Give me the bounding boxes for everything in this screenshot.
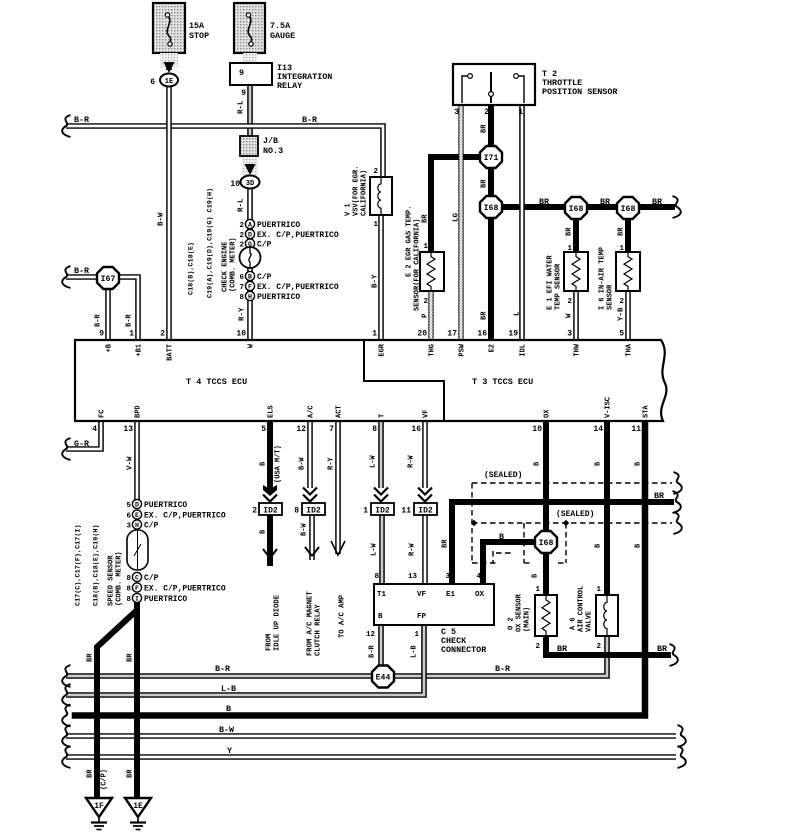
label B on STA wire lower <box>635 543 643 548</box>
arrow into ID2 on T wire <box>374 488 388 502</box>
svg-text:15A: 15A <box>189 21 205 31</box>
svg-text:B: B <box>499 532 504 542</box>
break B-W bus left <box>62 725 70 747</box>
label B on STA wire upper <box>635 461 643 466</box>
wire L-B bus from left break to check connector FP <box>66 625 424 695</box>
svg-text:BR: BR <box>652 197 663 207</box>
label BR right ground lower <box>127 769 135 778</box>
feather arrow from A/C magnet clutch relay <box>305 547 319 556</box>
svg-text:BR: BR <box>127 653 135 662</box>
label B bus <box>226 704 231 714</box>
arrow into ID2 on ELS wire <box>263 485 277 502</box>
wire B-W from ID2 to A/C magnet clutch relay arrow <box>309 514 315 560</box>
svg-text:STOP: STOP <box>189 31 209 41</box>
relay I13 box <box>230 63 272 85</box>
svg-text:L-B: L-B <box>411 645 419 658</box>
svg-text:8: 8 <box>239 294 244 302</box>
pin 4 check connector OX <box>476 573 481 581</box>
label BR right ground upper <box>127 653 135 662</box>
label B-R bus second <box>495 664 511 674</box>
label BR on sensor bus 2 <box>600 197 611 207</box>
connector 3D <box>241 176 260 189</box>
label A6 AIR CONTROL VALVE <box>570 586 594 632</box>
svg-text:SPEED SENSOR: SPEED SENSOR <box>108 555 116 606</box>
label BR below TPS <box>481 124 489 133</box>
svg-text:B: B <box>226 704 231 714</box>
svg-text:BPD: BPD <box>135 405 143 418</box>
svg-text:PUERTRICO: PUERTRICO <box>144 501 187 510</box>
wire R-W from ECU pin 16 VF to ID2 <box>422 421 428 488</box>
svg-text:C/P: C/P <box>257 241 272 250</box>
label W <box>566 313 574 318</box>
svg-text:CONNECTOR: CONNECTOR <box>441 645 487 655</box>
svg-text:SENSOR(FOR CALIFORNIA): SENSOR(FOR CALIFORNIA) <box>414 219 422 311</box>
wire L-W from ECU pin 8 T to ID2 <box>378 421 384 488</box>
svg-text:E1: E1 <box>446 591 456 599</box>
wire B (USA M/T) from ECU pin 5 ELS to ID2 <box>267 421 273 489</box>
wire from GAUGE fuse to integration relay pin <box>247 52 253 66</box>
svg-text:1: 1 <box>535 586 540 594</box>
svg-text:FP: FP <box>417 613 427 621</box>
label BR far right <box>657 644 668 654</box>
pin 9 below relay <box>241 89 246 98</box>
svg-text:J/B: J/B <box>263 136 278 146</box>
svg-text:FROM: FROM <box>266 634 274 651</box>
wire B-W from connector 1E to ECU pin 2 BATT <box>166 86 172 340</box>
wire R-W from ID2 to check connector VF <box>422 514 428 584</box>
fuse 15A STOP <box>153 3 185 53</box>
pin 1 check connector FP <box>414 631 419 639</box>
svg-text:12: 12 <box>296 425 306 434</box>
svg-text:E 2 EGR GAS TEMP.: E 2 EGR GAS TEMP. <box>406 206 414 277</box>
svg-text:R-L: R-L <box>238 100 246 114</box>
splice I68 third <box>617 197 639 219</box>
svg-text:C18(B),C18(E): C18(B),C18(E) <box>187 242 195 295</box>
svg-text:R-W: R-W <box>408 455 416 468</box>
label B-R top left <box>74 115 90 125</box>
svg-text:BR: BR <box>422 214 430 223</box>
label 7.5A GAUGE <box>270 21 295 41</box>
pin numbers speed sensor chain <box>126 502 131 604</box>
svg-text:BR: BR <box>127 769 135 778</box>
svg-text:SENSOR: SENSOR <box>607 284 615 310</box>
svg-text:BR: BR <box>618 227 626 236</box>
svg-text:B-R: B-R <box>215 664 231 674</box>
label L-B bus <box>221 684 236 694</box>
svg-text:(COMB. METER): (COMB. METER) <box>230 237 238 292</box>
label BR on sensor bus 3 <box>652 197 663 207</box>
connector ID2 on ELS wire <box>259 503 282 516</box>
label B on V-ISC wire lower <box>595 543 603 548</box>
svg-text:I68: I68 <box>621 205 636 214</box>
ground connector 1F <box>86 798 112 830</box>
label E2 EGR GAS TEMP SENSOR <box>406 206 422 311</box>
svg-text:O 2: O 2 <box>508 617 516 630</box>
pin 2 in-air temp sensor <box>619 298 624 306</box>
break on G-R wire <box>62 438 70 460</box>
pin 3 check connector E1 <box>445 573 450 581</box>
svg-text:9: 9 <box>241 89 246 98</box>
svg-text:CALIFORNIA): CALIFORNIA) <box>361 170 369 216</box>
svg-text:BR: BR <box>87 653 95 662</box>
svg-text:V-W: V-W <box>127 456 135 470</box>
svg-text:9: 9 <box>99 330 104 339</box>
pin 6 of connector 1E <box>150 78 155 87</box>
wire BR branch diagonal to ground 1F <box>97 611 136 798</box>
svg-text:4: 4 <box>476 573 481 581</box>
svg-text:EX. C/P,PUERTRICO: EX. C/P,PUERTRICO <box>257 231 339 240</box>
label R-W on VF wire <box>408 455 416 468</box>
pin 8 of ID2 A/C <box>294 507 299 516</box>
svg-text:R-W: R-W <box>409 543 417 556</box>
label T4 TCCS ECU <box>186 377 247 387</box>
pin 1 of ID2 T <box>363 507 368 516</box>
label BR right of OX sensor <box>557 644 568 654</box>
label T2 THROTTLE POSITION SENSOR <box>542 69 618 97</box>
svg-text:BR: BR <box>657 644 668 654</box>
fuse 7.5A GAUGE <box>234 3 265 53</box>
label CHECK ENGINE (COMB. METER) <box>222 237 238 292</box>
svg-text:E: E <box>135 512 139 519</box>
svg-text:1: 1 <box>373 221 378 229</box>
check engine lamp chain connectors <box>240 219 261 300</box>
pin 12 check connector B <box>366 631 376 639</box>
svg-text:AIR CONTROL: AIR CONTROL <box>578 586 586 632</box>
wire B from I68 splice to check connector OX <box>483 542 535 584</box>
junction block J/B No.3 <box>240 136 258 175</box>
arrow into connector 1E <box>164 62 175 73</box>
svg-text:8: 8 <box>126 596 131 604</box>
label V1 VSV(FOR EGR CALIFORNIA) <box>345 166 369 216</box>
pin 10 of connector 3D <box>230 180 240 189</box>
label (C/P) <box>101 769 109 790</box>
label B below ID2 <box>260 529 268 534</box>
svg-text:TO A/C AMP: TO A/C AMP <box>339 594 347 638</box>
label L <box>514 311 522 316</box>
label BR vertical at E1 <box>442 539 450 548</box>
splice I68 first <box>480 196 502 218</box>
EGR gas temp sensor E2 resistor <box>420 252 444 291</box>
svg-text:2: 2 <box>423 298 428 306</box>
svg-text:OX SENSOR: OX SENSOR <box>516 593 524 632</box>
svg-text:I68: I68 <box>569 205 584 214</box>
svg-text:C18(B),C18(E),C19(H): C18(B),C18(E),C19(H) <box>92 524 100 606</box>
label L-B at FP <box>411 645 419 658</box>
svg-text:EX. C/P,PUERTRICO: EX. C/P,PUERTRICO <box>257 283 339 292</box>
svg-text:B-R: B-R <box>495 664 511 674</box>
svg-text:7: 7 <box>329 425 334 434</box>
svg-text:RELAY: RELAY <box>277 81 303 91</box>
label (SEALED) upper <box>484 471 522 480</box>
connector ID2 on A/C wire <box>302 503 325 516</box>
break B bus left <box>62 705 70 727</box>
ground connector 1E bottom <box>125 798 151 830</box>
svg-text:BATT: BATT <box>167 344 175 361</box>
svg-text:VF: VF <box>417 591 427 599</box>
svg-text:B-Y: B-Y <box>372 274 380 288</box>
label B-R vertical +B <box>95 314 103 327</box>
pin 1 oxygen sensor <box>535 586 540 594</box>
label J/B NO.3 <box>263 136 283 156</box>
label B on V-ISC wire upper <box>595 461 603 466</box>
VSV V1 for EGR <box>370 177 392 215</box>
svg-text:C: C <box>135 574 139 581</box>
svg-text:9: 9 <box>239 68 244 78</box>
pin 2 air control valve <box>596 643 601 651</box>
svg-text:ACT: ACT <box>336 405 344 418</box>
pin 2 oxygen sensor <box>535 643 540 651</box>
label BR left ground upper <box>87 653 95 662</box>
svg-text:ID2: ID2 <box>306 507 321 516</box>
label BR at in-air temp sensor <box>618 227 626 236</box>
wire BR from I68 splice to EFI water temp sensor pin 1 <box>573 218 579 252</box>
throttle position sensor T2 box <box>453 64 535 105</box>
svg-text:BR: BR <box>442 539 450 548</box>
svg-text:T 4 TCCS ECU: T 4 TCCS ECU <box>186 377 247 387</box>
ECU top pin labels <box>106 343 634 361</box>
svg-text:ELS: ELS <box>268 405 276 418</box>
wire B-Y from VSV V1 pin 1 to ECU pin 1 EGR <box>378 215 384 340</box>
wire B-R from check connector B to ground splice E44 <box>378 625 384 666</box>
svg-text:+B: +B <box>106 343 114 352</box>
pin 1 in-air temp sensor <box>619 245 624 253</box>
connector 1E <box>160 74 178 87</box>
label BR vertical to E2 <box>481 311 489 320</box>
svg-text:17: 17 <box>447 330 457 339</box>
label B-W bus <box>219 725 235 735</box>
pin 2 EGR gas temp sensor <box>423 298 428 306</box>
svg-text:(MAIN): (MAIN) <box>524 607 532 632</box>
wire L-W from ID2 to check connector T1 <box>379 514 385 584</box>
label BR left ground lower <box>87 769 95 778</box>
label B-R vertical +B1 <box>126 314 134 327</box>
wire from STOP fuse to connector 1E <box>166 52 172 70</box>
svg-text:B-R: B-R <box>302 115 318 125</box>
svg-text:B-W: B-W <box>158 212 166 226</box>
svg-text:FC: FC <box>99 410 107 418</box>
svg-text:PUERTRICO: PUERTRICO <box>257 293 300 302</box>
svg-text:5: 5 <box>261 425 266 434</box>
label V-W <box>127 456 135 470</box>
wire R-Y from ECU pin 7 ACT to A/C amplifier arrow <box>335 421 341 554</box>
label B-R at I67 <box>74 266 90 276</box>
wire BR from speed sensor chain to ground 1E <box>134 603 140 798</box>
svg-text:I68: I68 <box>539 539 554 548</box>
air control valve A6 coil <box>596 595 618 636</box>
svg-text:2: 2 <box>535 643 540 651</box>
svg-text:1: 1 <box>414 631 419 639</box>
svg-text:LG: LG <box>453 212 461 222</box>
wire B-R bus from left break to VSV V1 pin 2 <box>66 126 383 177</box>
svg-text:4: 4 <box>92 425 97 434</box>
svg-text:ID2: ID2 <box>263 507 278 516</box>
label TO A/C AMP <box>339 594 347 638</box>
svg-text:THW: THW <box>574 343 582 356</box>
svg-text:+B1: +B1 <box>136 344 144 357</box>
svg-text:H: H <box>135 522 139 529</box>
svg-text:16: 16 <box>477 330 487 339</box>
svg-text:I67: I67 <box>101 275 116 284</box>
dashed sealed box around splice I68 <box>524 523 566 563</box>
svg-text:PSW: PSW <box>459 343 467 356</box>
svg-text:1E: 1E <box>133 802 143 811</box>
svg-text:A 6: A 6 <box>570 617 578 630</box>
label L-W below ID2 <box>371 543 379 556</box>
label B on ELS wire <box>260 461 268 466</box>
label C17(C),C17(F),C17(I) <box>74 524 82 606</box>
svg-text:BR: BR <box>481 124 489 133</box>
svg-text:POSITION SENSOR: POSITION SENSOR <box>542 87 618 97</box>
TPS pin numbers <box>454 108 523 117</box>
label FROM IDLE UP DIODE <box>266 594 282 651</box>
svg-text:2: 2 <box>619 298 624 306</box>
svg-text:B-W: B-W <box>301 523 309 536</box>
svg-text:F: F <box>135 585 139 592</box>
svg-text:7.5A: 7.5A <box>270 21 291 31</box>
label C18(B),C18(E) <box>187 242 195 295</box>
wire BR from I68 splice to in-air temp sensor pin 1 <box>625 218 631 252</box>
break Y bus left <box>62 746 70 768</box>
label B-R bus <box>215 664 231 674</box>
label I6 IN-AIR TEMP SENSOR <box>599 247 615 310</box>
pin 1 water temp sensor <box>567 245 572 253</box>
label BR on E1 bus <box>654 491 665 501</box>
svg-text:B-R: B-R <box>74 115 90 125</box>
svg-text:L-B: L-B <box>221 684 236 694</box>
label 15A STOP <box>189 21 209 41</box>
svg-text:V 1: V 1 <box>345 203 353 216</box>
label BR below I71 <box>481 179 489 188</box>
svg-text:PUERTRICO: PUERTRICO <box>257 221 300 230</box>
svg-text:F: F <box>248 283 252 290</box>
wire P from EGR gas temp sensor pin 2 to ECU pin 20 THG <box>428 291 433 340</box>
splice I68 fourth <box>535 531 557 553</box>
svg-text:1F: 1F <box>94 802 104 811</box>
svg-text:1E: 1E <box>165 78 173 86</box>
svg-text:D: D <box>248 231 252 238</box>
label Y-B <box>618 307 626 321</box>
arrow to A/C amp <box>331 541 345 555</box>
svg-text:E 1 EFI WATER: E 1 EFI WATER <box>547 255 555 310</box>
svg-text:B-R: B-R <box>95 314 103 327</box>
break on E1 BR bus right <box>673 491 681 513</box>
break B-R bus left <box>62 665 70 687</box>
svg-text:L: L <box>514 311 522 316</box>
svg-text:BR: BR <box>481 311 489 320</box>
svg-text:ID2: ID2 <box>418 507 433 516</box>
svg-text:L-W: L-W <box>370 455 378 468</box>
svg-text:W: W <box>566 313 574 318</box>
label BR at EGR gas temp sensor <box>422 214 430 223</box>
pin numbers check engine chain <box>239 222 244 302</box>
svg-text:10: 10 <box>236 330 246 339</box>
svg-text:R-L: R-L <box>238 198 246 212</box>
svg-text:5: 5 <box>619 330 624 339</box>
svg-text:OX: OX <box>475 591 485 599</box>
pin 13 check connector VF <box>408 573 418 581</box>
svg-text:1: 1 <box>596 586 601 594</box>
svg-text:13: 13 <box>408 573 418 581</box>
break on sensor bus right <box>673 196 681 218</box>
svg-text:L-W: L-W <box>371 543 379 556</box>
svg-text:CHECK ENGINE: CHECK ENGINE <box>222 242 230 292</box>
wire B from ECU pin 14 V-ISC to air control valve pin 1 <box>604 421 610 595</box>
label R-W below ID2 <box>409 543 417 556</box>
svg-text:I71: I71 <box>484 154 499 163</box>
svg-text:BR: BR <box>481 179 489 188</box>
wire B from ID2 to idle up diode arrow <box>267 514 273 563</box>
label B-R at E44 <box>369 645 377 658</box>
break B-W bus right <box>678 725 686 747</box>
svg-text:2: 2 <box>239 242 244 250</box>
svg-text:P: P <box>422 313 430 318</box>
EFI water temp sensor E1 resistor <box>564 252 588 291</box>
label O2 OX SENSOR (MAIN) <box>508 593 532 632</box>
label B on OX wire lower <box>532 573 540 578</box>
svg-text:A/C: A/C <box>308 405 316 418</box>
svg-text:C/P: C/P <box>144 522 159 531</box>
svg-text:1: 1 <box>372 330 377 339</box>
svg-text:STA: STA <box>643 405 651 418</box>
label B at OX splice branch <box>499 532 504 542</box>
svg-text:2: 2 <box>239 232 244 240</box>
wire G-R from ECU pin 4 FC to left break <box>66 421 101 449</box>
svg-text:14: 14 <box>593 425 603 434</box>
label C18(B),C18(E),C19(H) <box>92 524 100 606</box>
svg-text:(SEALED): (SEALED) <box>484 471 522 480</box>
wire B-R from left break to splice I67 <box>66 274 108 280</box>
wire BR main sensor ground bus from I68 splices to right break <box>503 204 672 210</box>
svg-text:BR: BR <box>87 769 95 778</box>
svg-text:12: 12 <box>366 631 376 639</box>
svg-text:G-R: G-R <box>74 439 90 449</box>
labels speed sensor chain destinations <box>144 501 226 604</box>
svg-text:2: 2 <box>239 222 244 230</box>
svg-text:BR: BR <box>654 491 665 501</box>
label Y bus <box>227 746 233 756</box>
ground splice E44 <box>372 666 394 688</box>
svg-text:BR: BR <box>600 197 611 207</box>
svg-text:1: 1 <box>423 243 428 251</box>
label (USA M/T) <box>275 445 283 483</box>
svg-text:NO.3: NO.3 <box>263 146 283 156</box>
wire BR from oxygen sensor pin 2 to right break <box>546 634 668 655</box>
svg-text:B-W: B-W <box>299 457 307 470</box>
svg-text:C19(A),C19(D),C19(G) C19(H): C19(A),C19(D),C19(G) C19(H) <box>206 188 214 298</box>
svg-text:(SEALED): (SEALED) <box>556 510 594 519</box>
svg-text:TEMP SENSOR: TEMP SENSOR <box>555 263 563 310</box>
arrow into ID2 on A/C wire <box>303 488 317 502</box>
speed sensor chain connectors <box>127 499 148 602</box>
svg-text:(COMB. METER): (COMB. METER) <box>116 551 124 606</box>
svg-text:B-W: B-W <box>219 725 235 735</box>
wire B-R from I67 to ECU pin 9 +B <box>105 288 111 340</box>
svg-text:B-R: B-R <box>369 645 377 658</box>
wire BR branch from I71 to EGR gas temp sensor pin 1 <box>431 157 479 252</box>
svg-text:6: 6 <box>126 513 131 521</box>
svg-text:16: 16 <box>411 425 421 434</box>
label SPEED SENSOR (COMB. METER) <box>108 551 124 606</box>
svg-text:BR: BR <box>539 197 550 207</box>
label C19(A),C19(D),C19(G) C19(H) <box>206 188 214 298</box>
svg-text:19: 19 <box>508 330 518 339</box>
svg-text:R-Y: R-Y <box>328 457 336 470</box>
labels check engine chain destinations <box>257 221 339 302</box>
label R-Y on ACT wire <box>328 457 336 470</box>
svg-text:T1: T1 <box>377 591 387 599</box>
label R-L lower <box>238 198 246 212</box>
label B on OX wire upper <box>534 461 542 466</box>
